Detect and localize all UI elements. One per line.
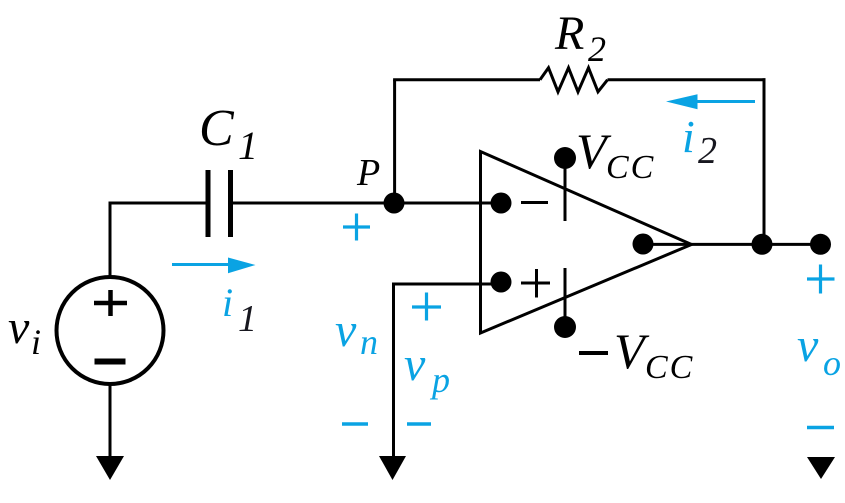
- wire right vertical: [763, 78, 766, 244]
- current arrow i2: [694, 100, 755, 103]
- plus sign inside source: [94, 290, 127, 316]
- svg-text:2: 2: [698, 130, 717, 172]
- wire top right segment: [608, 78, 766, 81]
- wire top left segment: [393, 78, 540, 81]
- svg-text:v: v: [8, 301, 30, 354]
- plus sign at noninverting input: [521, 269, 550, 298]
- label vn plus sign: [343, 214, 370, 241]
- svg-text:1: 1: [238, 123, 258, 168]
- wire feedback vertical from node P up: [393, 80, 396, 203]
- ground under noninverting input: [379, 456, 406, 480]
- wire source bottom to ground: [109, 383, 112, 458]
- wire output: [643, 243, 820, 246]
- label vp plus sign: [412, 293, 441, 321]
- Vcc supply dot: [554, 147, 576, 169]
- svg-text:n: n: [360, 322, 378, 362]
- Vcc stub wire: [564, 158, 567, 221]
- svg-text:i: i: [222, 280, 233, 325]
- resistor R2: [540, 68, 608, 92]
- svg-text:P: P: [356, 152, 380, 194]
- node P: [384, 193, 405, 214]
- label vo plus sign: [807, 265, 835, 294]
- node output junction: [752, 234, 773, 255]
- current arrow i1: [172, 263, 230, 266]
- svg-text:i: i: [682, 111, 695, 162]
- wire source top to main wire: [109, 203, 112, 278]
- node output terminal: [810, 234, 831, 255]
- -Vcc supply dot: [554, 316, 576, 338]
- output dot inside op-amp: [633, 234, 654, 255]
- wire main horizontal left segment: [109, 202, 208, 205]
- op-amp U1: [481, 152, 692, 334]
- svg-text:v: v: [335, 304, 357, 357]
- label vo minus sign: [807, 426, 834, 429]
- svg-text:v: v: [404, 338, 426, 391]
- svg-text:p: p: [429, 360, 450, 400]
- svg-text:o: o: [823, 343, 841, 383]
- wire noninverting input vertical to ground: [392, 284, 395, 458]
- capacitor C1: [208, 170, 231, 237]
- svg-text:C: C: [199, 100, 235, 157]
- wire noninverting input horizontal: [392, 283, 501, 286]
- voltage source Vi: [57, 277, 164, 384]
- label vp minus sign: [407, 422, 431, 425]
- noninverting input dot: [491, 272, 512, 293]
- svg-text:CC: CC: [606, 149, 655, 186]
- wire capacitor to inverting input: [233, 202, 501, 205]
- svg-text:CC: CC: [645, 349, 694, 386]
- svg-text:2: 2: [588, 29, 606, 69]
- minus sign inside source: [95, 359, 126, 365]
- svg-text:i: i: [31, 322, 41, 362]
- -Vcc stub wire: [564, 268, 567, 327]
- svg-text:R: R: [554, 7, 584, 60]
- svg-text:1: 1: [238, 298, 257, 340]
- ground under source: [96, 456, 124, 480]
- ground at output: [807, 457, 835, 479]
- svg-text:v: v: [797, 319, 819, 372]
- minus sign at inverting input: [521, 201, 548, 204]
- inverting input dot: [491, 193, 512, 214]
- label -VCC: [579, 351, 608, 355]
- label vn minus sign: [342, 422, 368, 425]
